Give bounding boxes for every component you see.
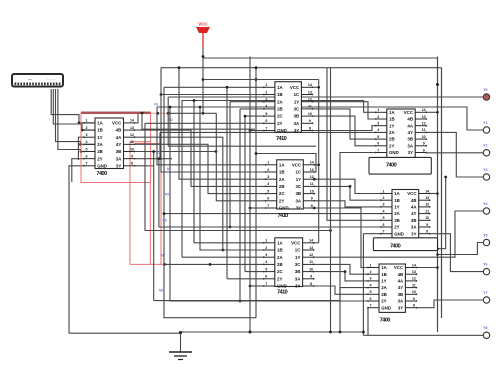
- svg-text:N6: N6: [163, 219, 167, 223]
- svg-text:VCC: VCC: [394, 265, 404, 270]
- svg-text:11: 11: [425, 209, 429, 213]
- svg-text:4B: 4B: [116, 128, 122, 133]
- svg-text:3C: 3C: [295, 184, 301, 189]
- svg-text:GND: GND: [389, 150, 399, 155]
- svg-text:GND: GND: [394, 231, 404, 236]
- svg-text:6: 6: [267, 197, 269, 201]
- svg-text:1: 1: [265, 239, 267, 243]
- svg-text:3Y: 3Y: [294, 128, 299, 133]
- svg-text:2: 2: [383, 196, 385, 200]
- svg-text:10: 10: [425, 216, 429, 220]
- svg-text:1A: 1A: [381, 265, 387, 270]
- svg-text:3: 3: [370, 277, 372, 281]
- svg-text:4B: 4B: [411, 198, 417, 203]
- svg-text:Y2: Y2: [483, 144, 487, 148]
- svg-text:3Y: 3Y: [295, 284, 300, 289]
- svg-text:2C: 2C: [277, 269, 283, 274]
- svg-text:8: 8: [310, 282, 312, 286]
- svg-text:6: 6: [86, 154, 88, 158]
- svg-text:12: 12: [309, 253, 313, 257]
- svg-text:1: 1: [370, 263, 372, 267]
- svg-text:2Y: 2Y: [394, 225, 399, 230]
- svg-text:3: 3: [377, 122, 379, 126]
- svg-text:GND: GND: [277, 128, 287, 133]
- svg-text:N4: N4: [167, 167, 171, 171]
- svg-text:2C: 2C: [279, 191, 285, 196]
- svg-text:13: 13: [308, 90, 312, 94]
- svg-text:8: 8: [423, 148, 425, 152]
- svg-text:2B: 2B: [381, 292, 387, 297]
- svg-text:VCC: VCC: [291, 240, 301, 245]
- svg-text:4Y: 4Y: [398, 285, 403, 290]
- svg-text:11: 11: [422, 128, 426, 132]
- svg-text:5: 5: [267, 189, 269, 193]
- svg-text:2: 2: [86, 126, 88, 130]
- svg-text:2: 2: [370, 270, 372, 274]
- svg-text:7400: 7400: [380, 318, 391, 324]
- svg-text:2Y: 2Y: [381, 299, 386, 304]
- svg-text:3C: 3C: [294, 107, 300, 112]
- svg-text:N8: N8: [159, 289, 163, 293]
- svg-text:N1: N1: [154, 103, 158, 107]
- svg-text:1Y: 1Y: [294, 99, 299, 104]
- svg-text:9: 9: [423, 142, 425, 146]
- svg-text:4: 4: [377, 128, 379, 132]
- svg-text:2: 2: [377, 115, 379, 119]
- svg-text:2A: 2A: [277, 99, 283, 104]
- svg-text:6: 6: [265, 275, 267, 279]
- svg-text:3A: 3A: [398, 299, 404, 304]
- svg-text:13: 13: [310, 168, 314, 172]
- svg-text:Y1: Y1: [483, 121, 487, 125]
- svg-text:2: 2: [265, 90, 267, 94]
- svg-text:10: 10: [130, 147, 134, 151]
- svg-text:3B: 3B: [398, 292, 404, 297]
- svg-text:1: 1: [86, 119, 88, 123]
- svg-text:5: 5: [383, 216, 385, 220]
- svg-text:1B: 1B: [381, 272, 387, 277]
- svg-text:3B: 3B: [411, 218, 417, 223]
- svg-text:4B: 4B: [407, 117, 413, 122]
- svg-text:1A: 1A: [97, 121, 103, 126]
- svg-text:7: 7: [265, 126, 267, 130]
- svg-text:▪▪▪▪: ▪▪▪▪: [28, 78, 33, 82]
- svg-text:14: 14: [425, 189, 429, 193]
- svg-text:Y4: Y4: [483, 202, 487, 206]
- svg-text:4A: 4A: [411, 205, 417, 210]
- svg-text:7400: 7400: [390, 244, 401, 250]
- svg-text:4A: 4A: [407, 123, 413, 128]
- svg-text:13: 13: [422, 115, 426, 119]
- svg-text:3C: 3C: [295, 262, 301, 267]
- svg-text:6: 6: [370, 297, 372, 301]
- svg-text:1: 1: [377, 108, 379, 112]
- svg-text:4: 4: [265, 260, 267, 264]
- svg-text:Y3: Y3: [483, 168, 487, 172]
- svg-text:4: 4: [267, 182, 269, 186]
- svg-text:2B: 2B: [97, 149, 103, 154]
- svg-text:2A: 2A: [389, 130, 395, 135]
- svg-text:4: 4: [86, 140, 88, 144]
- svg-text:1B: 1B: [279, 170, 285, 175]
- svg-text:1A: 1A: [389, 110, 395, 115]
- svg-text:1B: 1B: [394, 198, 400, 203]
- svg-text:4A: 4A: [398, 279, 404, 284]
- svg-text:3Y: 3Y: [296, 206, 301, 211]
- svg-text:12: 12: [425, 203, 429, 207]
- svg-text:VCC: VCC: [407, 191, 417, 196]
- svg-text:7: 7: [265, 282, 267, 286]
- svg-text:1: 1: [383, 189, 385, 193]
- svg-text:3Y: 3Y: [398, 305, 403, 310]
- svg-text:VCC: VCC: [112, 121, 122, 126]
- svg-text:13: 13: [130, 126, 134, 130]
- svg-text:13: 13: [309, 246, 313, 250]
- svg-text:2Y: 2Y: [277, 276, 282, 281]
- svg-text:11: 11: [309, 260, 313, 264]
- svg-text:2B: 2B: [394, 218, 400, 223]
- svg-text:5: 5: [265, 112, 267, 116]
- svg-text:5: 5: [86, 147, 88, 151]
- svg-text:1Y: 1Y: [295, 255, 300, 260]
- svg-text:5: 5: [265, 267, 267, 271]
- svg-text:2A: 2A: [279, 177, 285, 182]
- svg-text:Y8: Y8: [483, 326, 487, 330]
- svg-text:3Y: 3Y: [411, 231, 416, 236]
- svg-text:11: 11: [308, 105, 312, 109]
- svg-text:VCC: VCC: [290, 85, 300, 90]
- svg-text:10: 10: [310, 189, 314, 193]
- svg-text:GND: GND: [277, 284, 287, 289]
- svg-text:8: 8: [311, 204, 313, 208]
- svg-text:3B: 3B: [295, 191, 301, 196]
- svg-text:11: 11: [310, 182, 314, 186]
- svg-text:4: 4: [383, 209, 385, 213]
- svg-text:2Y: 2Y: [279, 198, 284, 203]
- svg-text:3: 3: [265, 253, 267, 257]
- svg-text:14: 14: [412, 263, 416, 267]
- svg-text:13: 13: [425, 196, 429, 200]
- svg-text:9: 9: [413, 297, 415, 301]
- svg-text:1A: 1A: [277, 85, 283, 90]
- svg-text:14: 14: [309, 239, 313, 243]
- svg-text:GND: GND: [381, 305, 391, 310]
- svg-text:1A: 1A: [394, 191, 400, 196]
- svg-text:6: 6: [265, 119, 267, 123]
- svg-text:7400: 7400: [96, 171, 107, 177]
- svg-text:3Y: 3Y: [116, 163, 121, 168]
- svg-text:2B: 2B: [277, 107, 283, 112]
- svg-text:Y7: Y7: [483, 291, 487, 295]
- svg-text:3: 3: [383, 203, 385, 207]
- svg-text:12: 12: [308, 98, 312, 102]
- svg-text:8: 8: [131, 162, 133, 166]
- svg-text:7: 7: [267, 204, 269, 208]
- svg-text:1Y: 1Y: [389, 123, 394, 128]
- svg-text:3A: 3A: [295, 276, 301, 281]
- svg-text:14: 14: [308, 83, 312, 87]
- svg-text:6: 6: [383, 223, 385, 227]
- svg-text:9: 9: [311, 197, 313, 201]
- svg-text:3A: 3A: [295, 198, 301, 203]
- svg-text:1B: 1B: [277, 92, 283, 97]
- svg-text:Y0: Y0: [483, 88, 487, 92]
- svg-text:14: 14: [310, 161, 314, 165]
- svg-text:12: 12: [412, 277, 416, 281]
- svg-text:8: 8: [309, 126, 311, 130]
- svg-text:2A: 2A: [394, 211, 400, 216]
- svg-text:12: 12: [310, 175, 314, 179]
- svg-text:1: 1: [265, 83, 267, 87]
- svg-text:7410: 7410: [277, 290, 288, 296]
- svg-text:1Y: 1Y: [97, 135, 102, 140]
- svg-text:3B: 3B: [407, 137, 413, 142]
- svg-text:4Y: 4Y: [411, 211, 416, 216]
- svg-text:1: 1: [267, 161, 269, 165]
- svg-text:10: 10: [309, 267, 313, 271]
- svg-text:2C: 2C: [277, 114, 283, 119]
- svg-text:1B: 1B: [389, 117, 395, 122]
- svg-text:1B: 1B: [277, 248, 283, 253]
- svg-text:1A: 1A: [279, 162, 285, 167]
- svg-text:11: 11: [130, 140, 134, 144]
- svg-text:10: 10: [422, 135, 426, 139]
- svg-text:9: 9: [131, 154, 133, 158]
- svg-text:VCC: VCC: [198, 22, 208, 27]
- svg-text:13: 13: [412, 270, 416, 274]
- svg-text:1A: 1A: [277, 240, 283, 245]
- svg-text:14: 14: [422, 108, 426, 112]
- svg-text:7410: 7410: [278, 213, 289, 219]
- svg-text:3A: 3A: [116, 156, 122, 161]
- svg-text:12: 12: [130, 133, 134, 137]
- svg-text:2B: 2B: [279, 184, 285, 189]
- svg-text:N7: N7: [161, 254, 165, 258]
- svg-text:1Y: 1Y: [296, 177, 301, 182]
- svg-text:9: 9: [309, 119, 311, 123]
- svg-text:4: 4: [265, 105, 267, 109]
- svg-text:4: 4: [370, 283, 372, 287]
- svg-text:GND: GND: [97, 163, 107, 168]
- svg-text:3B: 3B: [295, 269, 301, 274]
- svg-text:5: 5: [377, 135, 379, 139]
- svg-text:3Y: 3Y: [408, 150, 413, 155]
- svg-text:7410: 7410: [276, 136, 287, 142]
- svg-text:2A: 2A: [381, 285, 387, 290]
- svg-text:4Y: 4Y: [116, 142, 121, 147]
- svg-text:2B: 2B: [277, 262, 283, 267]
- svg-text:10: 10: [308, 112, 312, 116]
- svg-text:N2: N2: [169, 118, 173, 122]
- svg-text:N5: N5: [165, 193, 169, 197]
- svg-text:1Y: 1Y: [394, 205, 399, 210]
- svg-text:4A: 4A: [116, 135, 122, 140]
- svg-text:9: 9: [310, 275, 312, 279]
- svg-text:GND: GND: [279, 206, 289, 211]
- svg-text:Y6: Y6: [483, 262, 487, 266]
- svg-text:1Y: 1Y: [381, 279, 386, 284]
- svg-text:VCC: VCC: [292, 162, 302, 167]
- svg-text:7400: 7400: [386, 163, 397, 169]
- svg-text:5: 5: [370, 290, 372, 294]
- svg-text:3B: 3B: [294, 114, 300, 119]
- svg-text:2: 2: [265, 246, 267, 250]
- svg-text:3: 3: [86, 133, 88, 137]
- svg-text:3B: 3B: [116, 149, 122, 154]
- svg-text:2: 2: [267, 168, 269, 172]
- svg-text:2Y: 2Y: [389, 143, 394, 148]
- svg-text:3A: 3A: [411, 225, 417, 230]
- svg-text:1C: 1C: [295, 170, 301, 175]
- svg-text:7: 7: [377, 148, 379, 152]
- svg-text:N3: N3: [156, 151, 160, 155]
- svg-text:4Y: 4Y: [408, 130, 413, 135]
- svg-text:10: 10: [412, 290, 416, 294]
- svg-text:2B: 2B: [389, 137, 395, 142]
- svg-text:7: 7: [383, 230, 385, 234]
- svg-text:2A: 2A: [97, 142, 103, 147]
- svg-text:1C: 1C: [295, 248, 301, 253]
- svg-text:7: 7: [370, 304, 372, 308]
- svg-text:4B: 4B: [398, 272, 404, 277]
- svg-text:Y5: Y5: [483, 233, 487, 237]
- svg-text:2Y: 2Y: [277, 121, 282, 126]
- svg-text:· · · ·: · · · ·: [47, 78, 54, 82]
- svg-text:12: 12: [422, 122, 426, 126]
- svg-text:3A: 3A: [407, 143, 413, 148]
- svg-text:1C: 1C: [294, 92, 300, 97]
- svg-text:14: 14: [130, 119, 134, 123]
- svg-text:8: 8: [426, 230, 428, 234]
- svg-text:2Y: 2Y: [97, 156, 102, 161]
- svg-text:VCC: VCC: [404, 110, 414, 115]
- svg-text:3A: 3A: [294, 121, 300, 126]
- svg-text:3: 3: [267, 175, 269, 179]
- svg-text:6: 6: [377, 142, 379, 146]
- svg-text:3: 3: [265, 98, 267, 102]
- svg-text:9: 9: [426, 223, 428, 227]
- svg-text:7: 7: [86, 162, 88, 166]
- svg-text:1B: 1B: [97, 128, 103, 133]
- svg-text:11: 11: [412, 283, 416, 287]
- svg-text:8: 8: [413, 304, 415, 308]
- svg-text:2A: 2A: [277, 255, 283, 260]
